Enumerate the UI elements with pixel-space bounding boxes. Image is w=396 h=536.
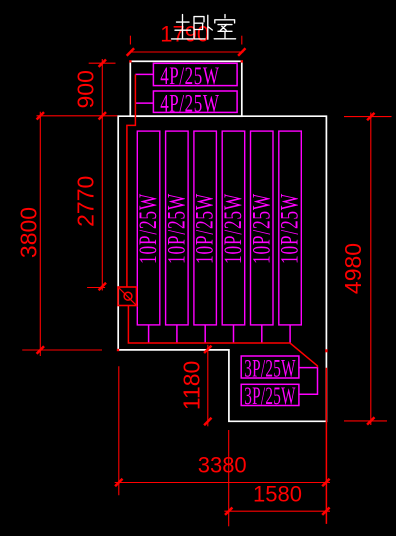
tick 3800 top [37,112,44,119]
ext line 4980 bottom [344,420,387,422]
coil column 3 drop wire [204,325,206,343]
svg-text:900: 900 [73,70,99,108]
pipe drop at right wall [325,368,327,524]
tick 3380 right [322,479,329,486]
tick 3380 left [115,479,122,486]
floor heating coil column 6 [275,131,303,325]
dim line 3380 [115,482,330,484]
character 卧 [194,15,212,39]
floor heating coil column 4 [219,131,247,325]
tick 1750 left [127,48,134,55]
dim line 1180 [207,345,209,427]
tick 4980 top [367,113,374,120]
svg-text:10P/25W: 10P/25W [247,193,275,264]
svg-text:4980: 4980 [340,243,366,294]
floor heating coil column 3 [191,131,219,325]
tick 4980 bottom [367,417,374,424]
ext line 3380 left [118,366,120,495]
svg-text:10P/25W: 10P/25W [162,193,190,264]
svg-text:1580: 1580 [253,482,302,507]
svg-text:3P/25W: 3P/25W [244,381,296,410]
ext line 1750 left [129,36,131,45]
tick 1180 bottom [204,418,211,425]
radiator box 4P/25W no.1 [153,62,237,90]
main pipe valve to bottom run [128,306,317,368]
tick 1750 right [238,48,245,55]
coil column 1 drop wire [148,325,150,343]
character 主 [172,15,193,39]
corner dot left [129,60,131,62]
svg-text:3P/25W: 3P/25W [244,353,296,382]
dim line 900-2770 [101,59,103,291]
svg-text:2770: 2770 [73,176,99,227]
coil column 6 drop wire [289,325,291,343]
svg-text:3380: 3380 [198,452,247,477]
ext line 2770 bottom [87,287,105,289]
tick 1580 left [225,508,232,515]
tick 900 top [99,60,106,67]
svg-text:10P/25W: 10P/25W [191,193,219,264]
ext line 4980 top [344,116,392,118]
manifold cabinet outline [130,61,242,116]
tick 1580 right [322,508,329,515]
floor heating coil column 1 [134,131,162,325]
room title 主卧室 [172,15,236,40]
svg-text:10P/25W: 10P/25W [219,193,247,264]
character 室 [214,15,235,39]
svg-text:4P/25W: 4P/25W [160,89,219,117]
ext line 1750 right [241,36,243,45]
radiator box 4P/25W no.2 [153,89,237,117]
floor heating coil column 2 [162,131,190,325]
coil column 2 drop wire [176,325,178,343]
svg-text:10P/25W: 10P/25W [134,193,162,264]
ext line room top [37,115,118,117]
tick 2770 bottom [99,283,106,290]
tick 1180 top [204,346,211,353]
dim line 4980 [370,113,372,426]
radiator box 3P/25W no.2 [241,381,299,410]
dim line 3800 [39,112,41,356]
radiator box 3P/25W no.1 [241,353,299,382]
room outline wall [118,116,326,421]
ext line room bottom-left [22,349,102,351]
svg-text:1180: 1180 [179,361,205,410]
svg-text:3800: 3800 [16,207,42,258]
svg-text:10P/25W: 10P/25W [275,193,303,264]
ext line 900 top [89,62,116,64]
wire connector between 3P boxes [299,368,318,395]
svg-text:1790: 1790 [160,22,209,47]
corner dot room bottom-left [117,349,119,351]
valve box [118,287,138,307]
coil column 4 drop wire [233,325,235,343]
svg-text:4P/25W: 4P/25W [160,62,219,90]
ext line 1580 left [228,430,230,526]
stub wire to 4P box2 [135,102,153,104]
stub wire to 4P box1 [135,73,153,75]
tick 3800 bottom [37,346,44,353]
corner dot right [241,60,243,62]
red mark on right wall [325,349,327,352]
dim line 1580 [224,510,330,512]
tick 900/2770 joint [99,112,106,119]
floor heating coil column 5 [247,131,275,325]
dim line 1750 [130,51,244,53]
supply pipe from cabinet to valve [127,74,135,287]
coil column 5 drop wire [261,325,263,343]
